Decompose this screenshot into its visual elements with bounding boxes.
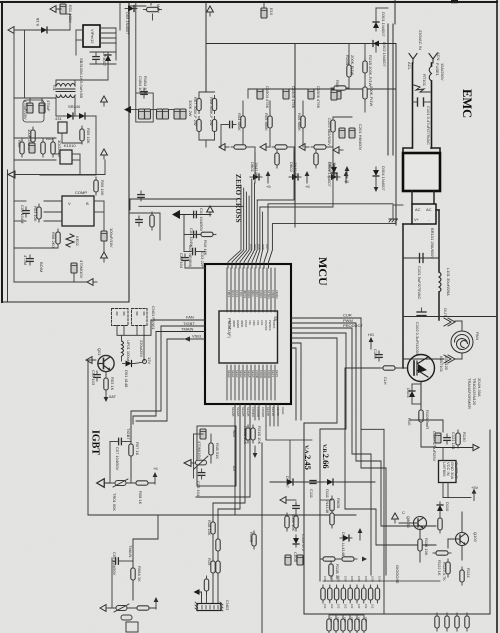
svg-text:KEY0B: KEY0B — [266, 407, 270, 416]
svg-text:Q103: Q103 — [473, 532, 478, 543]
svg-text:C1504 475K: C1504 475K — [265, 86, 270, 109]
diode D104 — [409, 388, 415, 400]
svg-text:DA/RD: DA/RD — [236, 320, 240, 328]
svg-text:D4007: D4007 — [285, 476, 290, 489]
svg-text:RX01: RX01 — [231, 290, 235, 297]
svg-text:RT101: RT101 — [422, 74, 427, 87]
node arrow strip — [124, 106, 131, 113]
svg-text:TIGBT: TIGBT — [126, 428, 131, 440]
svg-text:200K-F/1W: 200K-F/1W — [369, 86, 374, 106]
svg-text:PRODUCT: PRODUCT — [343, 323, 363, 328]
resistor R202 — [331, 117, 335, 135]
node terminal ACL — [409, 54, 417, 64]
wire caps top — [29, 98, 31, 103]
svg-text:V+: V+ — [414, 217, 420, 222]
resistor R20 — [211, 558, 215, 576]
IC U3 regulator comp — [62, 196, 94, 226]
capacitor E10 top center — [261, 8, 267, 18]
wire r1b link — [210, 434, 212, 440]
capacitor C04 — [190, 211, 200, 217]
svg-text:UF01 100uH: UF01 100uH — [126, 340, 131, 363]
wire U1 pins left — [76, 29, 83, 31]
svg-text:MOV: MOV — [156, 4, 161, 13]
svg-text:TX01: TX01 — [239, 290, 243, 297]
resistor R10B mid — [252, 531, 256, 549]
svg-text:SR240: SR240 — [68, 104, 81, 109]
resistor R21 300K — [197, 96, 201, 114]
svg-text:MCU: MCU — [316, 257, 330, 286]
svg-text:CIN01: CIN01 — [259, 290, 263, 298]
wire coil row — [403, 316, 444, 318]
svg-text:R02: R02 — [17, 140, 22, 148]
resistor row 2 — [327, 616, 366, 633]
wire SMPS block inner left border — [7, 170, 9, 302]
svg-text:SB3100/LLY-5.0uH-9B: SB3100/LLY-5.0uH-9B — [79, 58, 84, 98]
resistor R13 vertical — [56, 229, 60, 247]
connector CN03 — [197, 604, 221, 611]
wire top corner — [58, 8, 61, 10]
resistor R130 — [456, 430, 460, 448]
wire U3 pins left — [44, 200, 62, 202]
wire T1 secondary — [55, 97, 57, 116]
capacitor C54 filter — [226, 121, 236, 127]
svg-text:R06 680K: R06 680K — [297, 113, 302, 131]
capacitor E30 — [331, 90, 337, 100]
diode D4 rectifier — [76, 113, 88, 119]
svg-text:470uF: 470uF — [46, 100, 51, 112]
svg-text:R03 10K: R03 10K — [33, 206, 38, 222]
resistor R52 — [268, 113, 272, 131]
diode DB03 — [328, 174, 340, 180]
label mcu bottom nets — [231, 407, 285, 417]
wire box to bridge — [411, 191, 413, 204]
wire fan bus corner A — [145, 320, 205, 335]
label bus nets — [249, 244, 269, 250]
wire dividers top — [198, 92, 200, 96]
diode D2 snubber — [105, 52, 111, 64]
svg-text:102: 102 — [350, 604, 354, 609]
wire th1 row — [108, 482, 155, 484]
node flag cluster — [345, 166, 350, 178]
node arrow flag conn — [194, 589, 200, 595]
svg-text:S01: S01 — [232, 430, 237, 438]
svg-text:COM2B: COM2B — [261, 407, 265, 417]
wire q102 links — [399, 522, 414, 524]
svg-text:VLED: VLED — [281, 407, 285, 414]
node flag top center — [207, 6, 214, 16]
svg-text:102: 102 — [364, 604, 368, 609]
resistor R122 base — [433, 551, 451, 555]
wire collector row — [403, 358, 444, 360]
svg-text:R03 1K: R03 1K — [110, 377, 115, 391]
wire sense bus — [248, 88, 396, 90]
diode D01 — [123, 361, 135, 367]
labels row2 — [329, 617, 368, 622]
wire rail drop — [24, 30, 26, 98]
wire mcu bottom bundle drops — [255, 404, 312, 482]
svg-text:C65: C65 — [364, 617, 368, 622]
svg-text:D301 1N4007: D301 1N4007 — [381, 12, 386, 37]
box strip cluster — [136, 93, 153, 122]
box around caps — [23, 100, 44, 122]
wire U1 drain down — [115, 28, 117, 60]
wire ch1 vert — [242, 101, 244, 113]
svg-text:470M/10V: 470M/10V — [79, 260, 84, 279]
IC U6 7805 — [439, 461, 457, 483]
capacitor C201 — [339, 128, 345, 138]
svg-text:D11B LL4148: D11B LL4148 — [341, 532, 346, 557]
capacitor C54b on bus — [335, 89, 341, 99]
wire bottom rail — [14, 281, 88, 283]
svg-text:+5: +5 — [305, 184, 310, 189]
svg-text:CN01 FAN01: CN01 FAN01 — [151, 306, 156, 330]
svg-text:ACL: ACL — [407, 62, 412, 71]
wire vcc long a — [130, 199, 238, 210]
svg-text:R05 680K: R05 680K — [264, 113, 269, 131]
node +5V ch1 — [266, 171, 271, 183]
svg-text:VA01: VA01 — [251, 290, 255, 297]
svg-text:25N120: 25N120 — [444, 356, 449, 371]
wire 18V row — [270, 481, 375, 483]
wire gate left — [345, 367, 380, 369]
resistor R03 — [104, 375, 108, 393]
wire gnd rail down — [87, 360, 89, 515]
wire opto pins — [52, 153, 60, 155]
svg-text:KEY1: KEY1 — [271, 370, 275, 378]
svg-text:470M/16V: 470M/16V — [197, 441, 202, 460]
svg-text:220u/25V: 220u/25V — [139, 340, 144, 357]
node +5 flag th2 — [154, 597, 159, 609]
svg-text:102: 102 — [343, 604, 347, 609]
node 5AT flag — [104, 390, 109, 402]
wire DC+ bus — [402, 224, 404, 368]
resistor R13B vertical — [329, 561, 333, 579]
svg-text:R08 300K-F 2W: R08 300K-F 2W — [209, 97, 214, 126]
wire out drops to MCU — [254, 153, 256, 183]
svg-text:BR101 25A/600V: BR101 25A/600V — [430, 228, 435, 259]
capacitor C103 — [417, 311, 426, 313]
capacitor CX1 across mains — [413, 101, 418, 103]
svg-text:COMP: COMP — [75, 190, 87, 195]
wire bus jogs from right — [264, 204, 396, 268]
transistor Q103 — [456, 533, 469, 546]
wire tigbt corner — [131, 326, 161, 420]
capacitor C53 on bus — [308, 89, 314, 99]
svg-text:R06 10K: R06 10K — [100, 180, 105, 196]
svg-text:R05 10K: R05 10K — [86, 128, 91, 144]
capacitor CS3 — [157, 109, 163, 119]
svg-text:PAN: PAN — [475, 332, 480, 340]
svg-text:COM2: COM2 — [263, 370, 267, 379]
svg-text:R60B: R60B — [336, 498, 341, 508]
resistor R118 below — [418, 536, 422, 554]
capacitor E41 — [297, 555, 303, 565]
svg-text:C63: C63 — [350, 617, 354, 622]
MCU pin labels top — [227, 290, 279, 299]
wire cluster rows — [333, 116, 352, 118]
resistor R23 300K — [212, 96, 216, 114]
inductor L filter — [51, 139, 55, 157]
svg-text:OSC/SM: OSC/SM — [264, 320, 268, 330]
svg-text:102: 102 — [357, 604, 361, 609]
svg-text:R31B 10K: R31B 10K — [257, 426, 262, 445]
resistor R06 tmain — [131, 565, 135, 583]
wire r21 col — [364, 44, 366, 62]
wire top link — [130, 5, 146, 7]
svg-text:+5: +5 — [266, 184, 271, 189]
wire PRODUCT — [291, 327, 335, 329]
svg-text:102: 102 — [330, 604, 334, 609]
svg-text:D304 1N4007: D304 1N4007 — [381, 166, 386, 191]
wire sense double line left — [387, 24, 389, 155]
wire emc divider vertical — [395, 44, 397, 226]
svg-text:OUT: OUT — [443, 308, 448, 317]
resistor R51 — [241, 113, 245, 131]
svg-text:C102 0.3uF/1200V: C102 0.3uF/1200V — [415, 322, 420, 356]
wire snubber top — [90, 51, 116, 53]
svg-text:PWM1: PWM1 — [271, 290, 275, 299]
svg-text:TM01: TM01 — [227, 290, 231, 298]
capacitor E1 output — [27, 103, 33, 113]
resistor R55 horizontal — [272, 145, 290, 149]
wire ch2 vert — [269, 101, 271, 113]
svg-text:B: B — [86, 201, 89, 206]
diode DB01 — [250, 174, 262, 180]
svg-text:R19: R19 — [207, 558, 212, 566]
wire left bracket — [193, 434, 195, 478]
wire mcu bottom out pills — [246, 425, 250, 443]
diode DB02 — [289, 174, 301, 180]
resistor R112 — [294, 513, 298, 531]
wire emitter down — [420, 382, 422, 409]
svg-text:C113 472: C113 472 — [301, 534, 306, 552]
svg-text:CLK: CLK — [383, 377, 388, 385]
IC U4 mcu body — [219, 311, 278, 363]
ground main rail — [8, 171, 15, 178]
capacitor E2 output — [39, 103, 45, 113]
wire top border — [0, 1, 497, 3]
svg-text:FAN: FAN — [186, 315, 194, 320]
svg-text:OUTPUT: OUTPUT — [454, 462, 459, 479]
svg-text:C61: C61 — [336, 617, 340, 622]
svg-text:SEG3B: SEG3B — [246, 407, 250, 416]
transistor IGBT101 — [408, 355, 435, 382]
capacitor C out2 — [71, 263, 77, 273]
wire conn stubs — [206, 590, 208, 604]
svg-text:TR401/25N120: TR401/25N120 — [472, 378, 477, 406]
wire q01 base down — [105, 372, 107, 375]
wire dc out right — [439, 316, 497, 318]
wire vsel corner — [136, 339, 167, 421]
svg-text:D104: D104 — [406, 388, 411, 398]
svg-text:C05 104: C05 104 — [196, 481, 201, 497]
resistor R120 — [438, 515, 442, 533]
svg-text:R124: R124 — [466, 568, 471, 578]
node VSEL arrow — [184, 336, 190, 341]
svg-text:COM3: COM3 — [267, 370, 271, 379]
svg-text:R21B 200K-F/1W: R21B 200K-F/1W — [368, 55, 373, 87]
svg-text:R30B 10K: R30B 10K — [243, 426, 248, 445]
wire AC left line — [412, 63, 414, 148]
capacitor C01 — [23, 207, 29, 217]
wire zero cross horizontal — [206, 43, 396, 45]
capacitor C07 — [115, 438, 125, 444]
wire DC- bus upper — [438, 210, 440, 272]
ground reg right — [473, 444, 479, 450]
resistor row right — [435, 613, 469, 631]
svg-text:PWM/AN: PWM/AN — [268, 320, 272, 331]
wire q103 links — [448, 538, 456, 540]
wire 12V rail — [95, 130, 97, 175]
node HGWV flag — [369, 337, 374, 349]
capacitor C05b — [198, 469, 204, 479]
capacitor CS2 — [145, 109, 151, 119]
svg-text:CE05: CE05 — [293, 552, 298, 563]
svg-text:6.1B: 6.1B — [35, 17, 40, 26]
node top flag — [50, 6, 60, 13]
svg-text:AC: AC — [426, 207, 432, 212]
resistor R startup — [20, 139, 24, 157]
capacitor C112 — [293, 502, 299, 512]
svg-text:2005: 2005 — [257, 244, 261, 250]
resistor R strip 200 — [150, 212, 154, 230]
svg-text:AD001: AD001 — [247, 290, 251, 299]
wire bus to 384 — [361, 428, 384, 430]
resistor R20A — [347, 62, 351, 80]
inductor L01 vertical — [122, 341, 124, 356]
node +5 flag th1 — [153, 472, 158, 484]
svg-text:VSEL: VSEL — [192, 334, 203, 339]
induction coil L102 — [451, 331, 473, 353]
wire lm431 links — [61, 133, 63, 143]
svg-text:VDD: VDD — [252, 320, 256, 326]
resistor R09 th2 — [134, 606, 152, 610]
svg-text:473M: 473M — [23, 255, 28, 265]
MCU block border — [205, 264, 291, 404]
wire zero cross vertical — [205, 3, 207, 44]
svg-text:SEG1B: SEG1B — [236, 407, 240, 416]
wire cluster top — [348, 44, 350, 66]
capacitor C strip 195 — [138, 191, 144, 201]
svg-text:L101 30uH/26A: L101 30uH/26A — [446, 268, 451, 296]
IC LM431 — [58, 122, 67, 133]
ground vcc — [207, 206, 214, 216]
svg-text:SEG0: SEG0 — [227, 370, 231, 378]
ground chassis near bridge — [392, 205, 394, 218]
choke L101 — [439, 272, 441, 292]
capacitor C08 — [182, 254, 188, 264]
wire fan pins — [116, 326, 118, 336]
svg-text:C120 470uF/25V: C120 470uF/25V — [432, 431, 437, 462]
resistor R11B horizontal — [320, 557, 338, 561]
resistor E3 top — [144, 7, 162, 11]
svg-text:IMP/D: IMP/D — [240, 320, 244, 327]
svg-text:100uF/16V: 100uF/16V — [109, 228, 114, 248]
svg-text:HG: HG — [368, 332, 374, 337]
wire vcc drop — [103, 241, 105, 252]
svg-text:102: 102 — [371, 604, 375, 609]
svg-text:KEY0: KEY0 — [275, 370, 279, 378]
capacitor C strip1 — [141, 88, 147, 98]
MCU pin grid top — [227, 268, 275, 312]
capacitor C202 — [349, 128, 355, 138]
svg-text:VSS: VSS — [256, 320, 260, 325]
svg-text:2004: 2004 — [253, 244, 257, 250]
capacitor C bulk 400V — [69, 14, 71, 30]
top border tab — [451, 0, 458, 3]
optocoupler U2 — [60, 150, 72, 164]
svg-text:C02 103: C02 103 — [91, 370, 96, 386]
wire right col vert — [383, 429, 385, 613]
wire fan node — [121, 356, 123, 361]
resistor R07 — [129, 441, 133, 459]
resistor R18 — [211, 519, 215, 537]
ground block bottom — [87, 279, 97, 286]
node AC input flag — [8, 27, 18, 34]
wire strip vertical — [135, 3, 137, 94]
svg-text:+5V: +5V — [471, 485, 479, 490]
svg-text:E10: E10 — [269, 8, 274, 16]
wire right border — [496, 0, 498, 633]
resistor R05 — [80, 126, 84, 144]
wire PHASE — [291, 322, 335, 324]
MCU pin labels bottom — [227, 370, 279, 379]
svg-text:+5: +5 — [153, 466, 158, 471]
wire cap row upper — [403, 257, 439, 259]
ground ch3 — [299, 144, 309, 151]
svg-text:R04 680K: R04 680K — [237, 113, 242, 131]
resistor R24 300K — [212, 117, 216, 135]
wire vcc row — [180, 214, 211, 216]
MCU inner pin labels — [228, 320, 276, 331]
svg-text:SEG2B: SEG2B — [241, 407, 245, 416]
resistor R53 — [301, 113, 305, 131]
svg-text:102: 102 — [337, 604, 341, 609]
resistor R105 gate — [380, 366, 398, 370]
capacitor CS5 — [174, 109, 180, 119]
wire fan bus — [117, 334, 145, 336]
resistor R19 — [216, 536, 220, 554]
capacitor C snub — [93, 53, 99, 63]
wire secondary out — [56, 115, 64, 117]
svg-text:SEG0B: SEG0B — [231, 407, 235, 416]
capacitor C1B — [200, 429, 206, 439]
svg-text:12V: 12V — [147, 357, 152, 364]
wire left column — [14, 200, 26, 202]
svg-text:20UH-30A: 20UH-30A — [477, 378, 482, 397]
svg-text:C03 22P: C03 22P — [200, 252, 205, 268]
diode D302 horizontal — [370, 41, 382, 47]
wire TIGBT — [161, 325, 205, 327]
resistor R12B horizontal — [339, 557, 357, 561]
MCU pin grid bottom — [227, 365, 275, 400]
ground th1 — [97, 479, 110, 488]
svg-text:C101 0.47uF/275VAC: C101 0.47uF/275VAC — [426, 106, 431, 145]
wire ch outs — [249, 146, 255, 148]
svg-text:TMAIN: TMAIN — [181, 327, 194, 332]
capacitor E40 — [285, 555, 291, 565]
resistor R106 shunt — [419, 407, 423, 425]
wire mid links — [320, 558, 323, 560]
capacitor C51 on bus — [257, 89, 263, 99]
wire left rail — [13, 30, 15, 282]
svg-text:VIPer12: VIPer12 — [90, 29, 95, 44]
resistor R30 — [363, 84, 367, 102]
svg-text:C08 104: C08 104 — [179, 253, 184, 269]
diode D5 top — [125, 6, 137, 12]
wire bus above MCU — [228, 179, 263, 268]
node arrow right — [362, 557, 367, 562]
